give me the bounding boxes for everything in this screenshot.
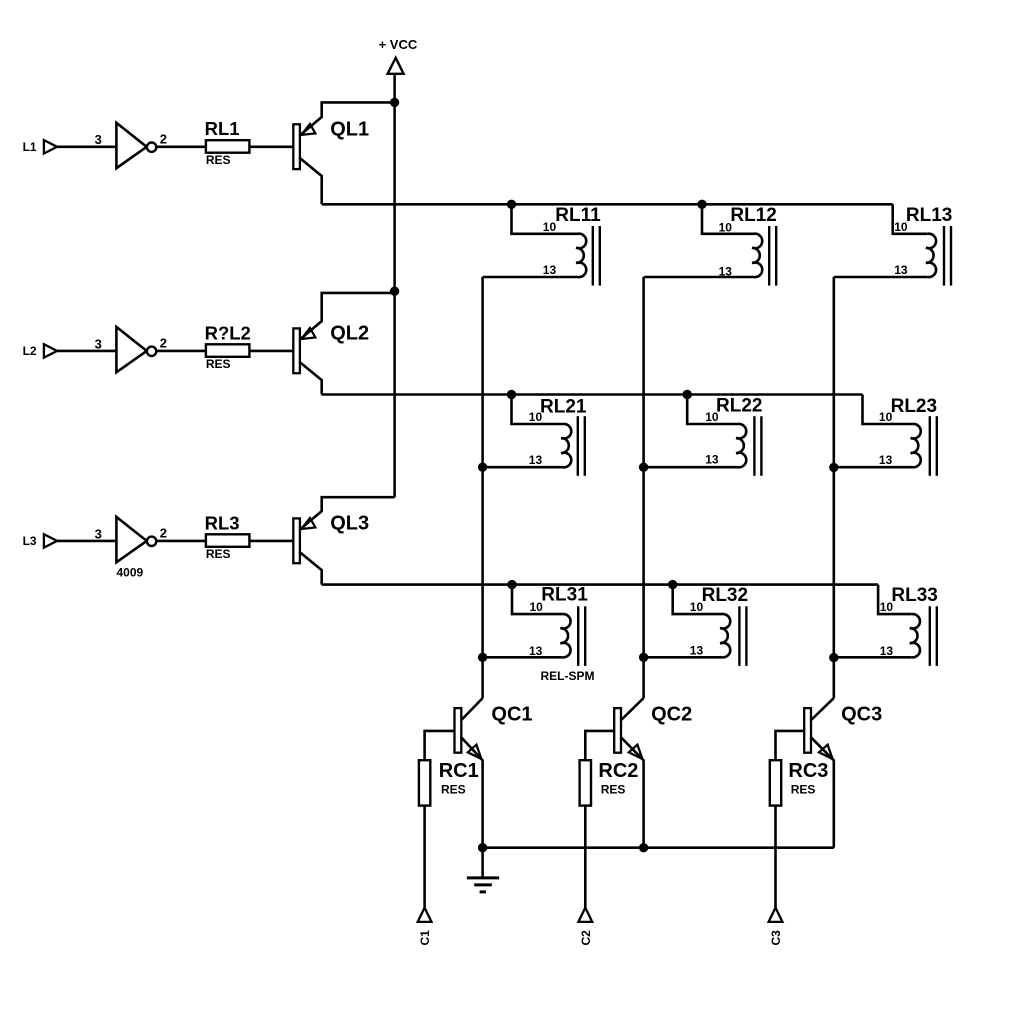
svg-text:QC3: QC3 [841,703,882,725]
power VCC symbol [388,58,404,74]
node junction QC1 emitter to ground bus [478,843,487,852]
svg-text:QL3: QL3 [330,513,369,535]
relay coil RL31 pin 13 wire [483,656,563,659]
relay coil RL31 core line 2 [584,606,586,666]
wire emitter ground bus [483,846,834,849]
relay coil RL33 core line 2 [936,606,938,666]
svg-text:10: 10 [719,221,733,235]
relay coil RL11 pin 13 wire [483,276,578,279]
svg-text:13: 13 [529,453,543,467]
relay coil RL12 core line 2 [775,226,777,286]
transistor QL1 emitter arrow (PNP) [301,124,315,135]
relay coil RL21 pin 13 wire [483,466,563,469]
relay coil RL13 core line 2 [950,226,952,286]
relay coil RL23 core line 1 [929,416,931,476]
node junction RL33 pin13 to column 3 [829,653,838,662]
node junction RL22 pin13 to column 2 [639,463,648,472]
transistor QL2 emitter arrow (PNP) [301,328,315,339]
relay coil RL13 pin 13 wire [834,276,928,279]
relay coil RL12 pin 10 wire [702,204,754,234]
relay coil RL12 pin 13 wire [644,276,754,279]
wire column 1 net [481,277,484,698]
relay coil RL22 winding [736,424,746,467]
relay coil RL22 core line 1 [753,416,755,476]
node junction RL22 to row bus [683,390,692,399]
svg-text:L3: L3 [23,534,37,548]
wire L1 to inverter input [57,146,116,149]
transistor QC2 base wire [585,731,614,760]
svg-text:+ VCC: + VCC [379,37,418,52]
ground symbol bar 3 [480,890,486,893]
svg-text:RL12: RL12 [730,205,776,226]
node junction RL11 to row bus [507,200,516,209]
svg-text:RL23: RL23 [891,396,937,417]
svg-text:2: 2 [160,526,167,541]
svg-text:RC2: RC2 [598,760,638,782]
node junction RL12 to row bus [697,200,706,209]
node junction RL23 pin13 to column 3 [829,463,838,472]
svg-text:RL33: RL33 [891,585,937,606]
transistor QC1 collector wire [461,698,483,720]
svg-text:3: 3 [95,336,102,351]
svg-text:10: 10 [529,410,543,424]
wire resistor to transistor QL1 base [249,146,293,149]
transistor QC1 base bar [455,708,462,753]
svg-text:L1: L1 [23,140,37,154]
node junction QC2 emitter to ground bus [639,843,648,852]
resistor RL1 body [206,140,250,153]
transistor QL3 emitter arrow (PNP) [301,518,315,529]
relay coil RL22 pin 13 wire [644,466,738,469]
svg-text:RL13: RL13 [906,205,952,226]
svg-text:RES: RES [601,782,626,796]
relay coil RL31 pin 10 wire [512,585,562,615]
wire row 2 collector bus [322,393,863,396]
relay coil RL33 pin 10 wire [878,585,912,615]
relay coil RL23 core line 2 [936,416,938,476]
transistor QL3 collector wire [299,552,321,585]
svg-text:4009: 4009 [117,565,144,579]
svg-text:RL32: RL32 [702,585,748,606]
resistor RC3 body [770,760,781,805]
transistor QC1 emitter wire [461,737,483,848]
svg-text:13: 13 [529,644,543,658]
svg-text:C3: C3 [769,930,783,946]
relay coil RL23 pin 13 wire [834,466,913,469]
relay coil RL33 pin 13 wire [834,656,912,659]
transistor QC1 emitter arrow (NPN) [468,745,482,759]
transistor QL3 emitter wire [299,497,394,530]
transistor QC3 collector wire [811,698,834,720]
relay coil RL21 core line 2 [584,416,586,476]
transistor QC3 base bar [804,708,811,753]
port L1 input arrow [44,140,57,153]
relay coil RL32 core line 1 [738,606,740,666]
transistor QC2 collector wire [621,698,644,720]
svg-text:RES: RES [206,547,231,561]
wire L3 to inverter input [57,540,116,543]
ground symbol bar 2 [474,883,492,886]
svg-text:RC3: RC3 [788,760,828,782]
relay coil RL23 pin 10 wire [863,395,913,425]
svg-text:RC1: RC1 [439,760,479,782]
resistor RC2 body [580,760,591,805]
wire column 2 net [642,277,645,698]
node junction QL1 emitter to VCC rail [390,98,399,107]
relay coil RL13 pin 10 wire [893,204,928,234]
port C1 input arrow [418,908,432,922]
wire row 3 collector bus [322,583,878,586]
svg-text:13: 13 [880,644,894,658]
node junction RL32 pin13 to column 2 [639,653,648,662]
transistor QC2 base bar [614,708,621,753]
relay coil RL11 core line 2 [599,226,601,286]
relay coil RL11 core line 1 [592,226,594,286]
transistor QL2 base bar [293,328,300,373]
ground symbol stem [481,848,484,877]
node junction RL32 to row bus [668,580,677,589]
transistor QL1 collector wire [299,158,321,205]
relay coil RL22 pin 10 wire [687,395,738,425]
relay coil RL21 core line 1 [577,416,579,476]
svg-text:C1: C1 [418,930,432,946]
svg-text:13: 13 [894,263,908,277]
svg-text:R?L2: R?L2 [205,322,251,343]
svg-text:3: 3 [95,132,102,147]
relay coil RL32 winding [720,614,730,657]
inverter U1 4009 triangle [116,123,146,168]
svg-text:10: 10 [894,220,908,234]
relay coil RL32 pin 13 wire [644,656,722,659]
svg-text:10: 10 [690,600,704,614]
wire RC3 to input port [774,806,777,908]
wire resistor to transistor QL2 base [249,350,293,353]
relay coil RL11 winding [576,234,586,277]
wire column 3 net [832,277,835,698]
wire VCC vertical rail [393,74,396,497]
wire inverter U3 output to resistor [156,540,206,543]
resistor R?L2 body [206,344,250,357]
transistor QC3 emitter arrow (NPN) [819,745,833,759]
wire inverter U1 output to resistor [156,146,206,149]
svg-text:RL11: RL11 [555,205,601,226]
port C3 input arrow [769,908,783,922]
svg-text:QC1: QC1 [491,703,532,725]
relay coil RL13 core line 1 [943,226,945,286]
node junction RL21 pin13 to column 1 [478,463,487,472]
node junction QL2 emitter to VCC rail [390,287,399,296]
resistor RC1 body [419,760,430,805]
node junction RL31 to row bus [507,580,516,589]
resistor RL3 body [206,534,250,547]
wire inverter U2 output to resistor [156,350,206,353]
relay coil RL32 pin 10 wire [673,585,722,615]
relay coil RL21 winding [561,424,571,467]
transistor QL3 base bar [293,518,300,563]
inverter U2 output bubble [147,347,156,356]
svg-text:RL21: RL21 [540,397,587,418]
svg-text:13: 13 [543,263,557,277]
svg-text:QC2: QC2 [651,703,692,725]
svg-text:RL1: RL1 [205,118,240,139]
svg-text:13: 13 [690,643,704,657]
svg-text:2: 2 [160,132,167,147]
port L3 input arrow [44,534,57,547]
transistor QC2 emitter arrow (NPN) [629,745,643,759]
svg-text:RES: RES [791,782,816,796]
transistor QL2 collector wire [299,362,321,395]
svg-text:REL-SPM: REL-SPM [541,669,595,683]
node junction RL21 to row bus [507,390,516,399]
svg-text:13: 13 [719,264,733,278]
svg-text:13: 13 [705,453,719,467]
relay coil RL33 core line 1 [929,606,931,666]
transistor QL1 base bar [293,124,300,169]
relay coil RL13 winding [926,234,936,277]
svg-text:10: 10 [879,410,893,424]
transistor QC3 base wire [776,731,805,760]
svg-text:QL1: QL1 [330,118,369,140]
inverter U2 4009 triangle [116,327,146,372]
svg-text:10: 10 [880,600,894,614]
relay coil RL33 winding [910,614,920,657]
wire row 1 collector bus [322,203,893,206]
wire L2 to inverter input [57,350,116,353]
svg-text:RL31: RL31 [541,585,588,606]
relay coil RL11 pin 10 wire [512,204,579,234]
transistor QL1 emitter wire [299,102,394,135]
wire RC1 to input port [423,806,426,908]
svg-text:RES: RES [441,782,466,796]
node junction RL31 pin13 to column 1 [478,653,487,662]
svg-text:C2: C2 [579,930,593,946]
transistor QC2 emitter wire [621,737,644,848]
port L2 input arrow [44,344,57,357]
svg-text:L2: L2 [23,344,37,358]
wire resistor to transistor QL3 base [249,540,293,543]
svg-text:RL22: RL22 [716,395,762,416]
svg-text:RES: RES [206,153,231,167]
svg-text:3: 3 [95,526,102,541]
transistor QC1 base wire [425,731,455,760]
transistor QC3 emitter wire [811,737,834,848]
relay coil RL12 winding [752,234,762,277]
relay coil RL23 winding [911,424,921,467]
relay coil RL31 core line 1 [577,606,579,666]
relay coil RL31 winding [561,614,571,657]
transistor QL2 emitter wire [299,293,394,340]
svg-text:2: 2 [160,336,167,351]
svg-text:RES: RES [206,357,231,371]
svg-text:13: 13 [879,453,893,467]
inverter U1 output bubble [147,143,156,152]
svg-text:10: 10 [543,220,557,234]
svg-text:RL3: RL3 [205,512,240,533]
svg-text:QL2: QL2 [330,323,369,345]
ground symbol bar 1 [467,876,499,879]
relay coil RL12 core line 1 [768,226,770,286]
relay coil RL21 pin 10 wire [512,395,564,425]
port C2 input arrow [578,908,592,922]
wire RC2 to input port [584,806,587,908]
relay coil RL32 core line 2 [745,606,747,666]
inverter U3 output bubble [147,537,156,546]
svg-text:10: 10 [705,410,719,424]
relay coil RL22 core line 2 [760,416,762,476]
inverter U3 4009 triangle [116,517,146,562]
svg-text:10: 10 [530,600,544,614]
